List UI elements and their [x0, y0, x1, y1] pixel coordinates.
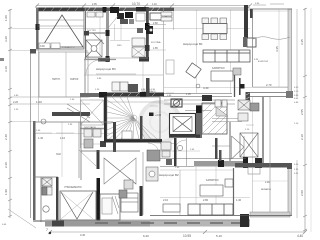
svg-text:1.85: 1.85: [153, 47, 158, 50]
top dimension line: [35, 4, 252, 8]
B1 right inner wall: [234, 68, 236, 97]
B2 bath dark bit: [166, 159, 172, 165]
stairwell top wall: [104, 93, 164, 97]
svg-text:3.20: 3.20: [4, 36, 8, 42]
svg-text:3.40: 3.40: [80, 233, 86, 237]
block left wall: [85, 8, 87, 60]
svg-text:ΧΩΛ: ΧΩΛ: [117, 45, 122, 47]
hall inner vline: [78, 122, 80, 178]
svg-text:3.10: 3.10: [4, 66, 8, 72]
hline below stairs: [81, 150, 140, 152]
svg-text:4.40: 4.40: [297, 234, 303, 238]
left narrow room boxes: [42, 178, 52, 195]
B1 bottom wall: [164, 94, 232, 97]
svg-text:0.90: 0.90: [40, 45, 45, 48]
B2 sofa: [188, 204, 233, 215]
corridor small box: [122, 131, 132, 139]
corridor dark segment: [202, 95, 212, 101]
thin divider kitchen-living: [163, 8, 165, 97]
B1 right hatch box: [233, 68, 241, 75]
bottom edge line y215: [150, 215, 292, 217]
right bath bottom wall band: [235, 163, 291, 168]
B1 plant: [196, 84, 200, 88]
top wall hatch gaps: [87, 8, 160, 12]
svg-text:2.40: 2.40: [4, 134, 8, 140]
top-left room dark block on left wall: [36, 24, 40, 30]
svg-text:Διαμέρισμα Β1: Διαμέρισμα Β1: [183, 42, 203, 46]
svg-text:ΕΞΩΣΤΗΣ: ΕΞΩΣΤΗΣ: [258, 61, 269, 63]
svg-text:1.00: 1.00: [4, 15, 8, 21]
top wall dark studs: [103, 7, 107, 13]
top wall hatched: [84, 8, 174, 12]
B1 top window wall: [174, 8, 250, 10]
laundry left wall: [80, 122, 82, 180]
B1 wall lower segment: [243, 37, 247, 47]
shaft hatch region: [203, 103, 227, 134]
svg-text:2.80: 2.80: [153, 22, 158, 25]
balcony left wall line: [252, 9, 254, 87]
laundry boxes: [84, 129, 101, 148]
svg-text:2.20: 2.20: [4, 162, 8, 168]
svg-text:5.10: 5.10: [216, 234, 222, 238]
kitchen wall dark blob 2: [145, 45, 150, 51]
svg-text:2.90: 2.90: [265, 181, 270, 184]
svg-text:7: 7: [46, 228, 48, 232]
block bottom wall: [84, 59, 116, 61]
long interior guide lines: [10, 10, 288, 218]
terrace band top edge: [45, 219, 250, 221]
svg-text:2.70: 2.70: [266, 83, 272, 87]
bottom wall lower-left: [33, 220, 130, 222]
left narrow room divider: [33, 176, 58, 178]
small fixtures above B2 bed: [119, 180, 133, 198]
B3 closet boxes: [112, 82, 128, 91]
B2 top wall gray band: [194, 161, 246, 167]
svg-text:ΧΩΡΟΣ: ΧΩΡΟΣ: [70, 78, 79, 81]
dining table: [203, 24, 227, 34]
ramp diagonal 2: [67, 108, 90, 122]
B2 small bed: [121, 193, 138, 212]
svg-text:ΚΑΘΙΣΤΙΚΟ: ΚΑΘΙΣΤΙΚΟ: [212, 67, 225, 70]
svg-text:2.10: 2.10: [163, 198, 169, 202]
small bath left of stairwell: [80, 93, 104, 97]
scattered tiny dim texts: [36, 59, 259, 169]
mid vertical wall: [106, 11, 109, 62]
left dimension line: [8, 9, 12, 218]
svg-text:ΗΜΙΥΠ.: ΗΜΙΥΠ.: [52, 78, 61, 81]
svg-text:0.30 1.20 0.30: 0.30 1.20 0.30: [141, 89, 156, 91]
B2 vertical dark stub: [219, 150, 222, 161]
stair landing line: [159, 97, 161, 139]
B3 left wall: [84, 60, 86, 97]
right mid wall: [262, 97, 264, 167]
terrace band left: [45, 221, 150, 227]
right dim texts: [300, 39, 304, 196]
svg-text:1.10: 1.10: [60, 136, 66, 140]
B1 right wall dark column: [244, 5, 248, 38]
bath fixtures right of butterfly: [146, 150, 160, 181]
mid wall dark blob 2: [106, 56, 110, 62]
kitchen vertical wall: [146, 7, 149, 60]
door diagonal bath: [93, 33, 104, 44]
B1 armchair rotated: [186, 63, 201, 78]
balcony dim 2.70: [253, 86, 288, 88]
bottom right gray sill: [250, 212, 290, 217]
right bath fixtures: [238, 100, 259, 121]
door diagonal room2: [108, 16, 118, 28]
top-left room outline: [38, 11, 84, 49]
kitchen wall dark blob 1: [145, 23, 150, 30]
door arc B3: [86, 60, 100, 74]
svg-text:1.40: 1.40: [152, 3, 157, 6]
wardrobe inner box: [102, 198, 112, 214]
wall connector right: [269, 97, 271, 215]
hall door diagonal: [79, 150, 96, 166]
semi-open room divider: [65, 52, 67, 97]
top wall hatch marks: [43, 8, 78, 12]
top-left room small label boxes: [39, 43, 50, 49]
svg-text:4.40: 4.40: [203, 86, 209, 90]
B2 entry area right of shaft: [215, 100, 227, 107]
balcony left wall upper: [250, 9, 253, 18]
svg-text:2.10: 2.10: [300, 134, 304, 140]
B2 left sideboard: [163, 204, 180, 212]
terrace band right: [150, 220, 250, 227]
dim line y97: [10, 96, 90, 98]
shower X box: [86, 40, 102, 57]
butterfly triangles: [104, 158, 136, 184]
junction dark box left: [30, 49, 36, 54]
svg-text:1.40: 1.40: [38, 136, 44, 140]
stair fan steps: [107, 97, 160, 139]
sink circle: [149, 28, 152, 31]
B1 coffee table: [211, 71, 233, 81]
semi-open room outline: [39, 52, 88, 97]
watermark circle logo: [140, 102, 180, 142]
block bottom wall dark segment: [98, 58, 110, 62]
svg-text:ΚΟΥΖΙΝΑ: ΚΟΥΖΙΝΑ: [151, 41, 161, 44]
B2 right wall: [233, 168, 235, 215]
left boundary second line: [38, 49, 40, 122]
right wall band at y92: [250, 93, 292, 97]
svg-text:2.80: 2.80: [203, 198, 209, 202]
corridor vertical dark line left: [174, 138, 177, 166]
wardrobe hatch: [112, 196, 119, 214]
small circle fixture: [41, 119, 46, 124]
terrace band left dark start: [52, 221, 64, 227]
shaft boundary: [202, 103, 227, 134]
svg-text:1.00: 1.00: [36, 100, 42, 104]
dining chairs bottom row: [202, 34, 227, 40]
corridor top lines: [164, 100, 235, 111]
bedroom bed zigzag: [60, 191, 96, 220]
ramp diagonal 1: [67, 104, 90, 118]
wc outline boxes: [136, 13, 145, 21]
dining chairs top row: [202, 18, 227, 24]
B2 top wall black blob 1: [218, 160, 224, 167]
svg-text:+3.00: +3.00: [155, 114, 162, 117]
bedroom right black wall: [97, 178, 101, 222]
svg-text:6.20: 6.20: [143, 234, 149, 238]
B1 sofa: [203, 50, 250, 62]
svg-text:ΠΛΥΣΤΑΡΙΟ: ΠΛΥΣΤΑΡΙΟ: [84, 126, 96, 129]
dim line y104: [10, 103, 90, 105]
bottom right dark block: [240, 214, 249, 227]
svg-text:1.40: 1.40: [236, 198, 242, 202]
left dim texts: [4, 15, 8, 195]
laundry right wall: [113, 122, 116, 152]
leader diagonal bottom-left: [8, 209, 36, 228]
svg-text:ΧΩΛ: ΧΩΛ: [56, 153, 61, 156]
corridor door arcs: [148, 140, 186, 154]
svg-text:3.35: 3.35: [300, 39, 304, 45]
top-left room top wall: [37, 8, 84, 12]
kitchen counter top: [150, 13, 166, 20]
svg-text:ΥΠΝΟΔΩΜΑΤΙΟ: ΥΠΝΟΔΩΜΑΤΙΟ: [64, 186, 82, 189]
right outer dimension line: [303, 8, 307, 232]
extra right texts: [294, 87, 299, 175]
bath1 small boxes: [87, 12, 103, 17]
B2 coffee table: [200, 185, 223, 196]
bottom dimension line: [48, 230, 307, 234]
wardrobe: [100, 194, 120, 220]
svg-text:2.95: 2.95: [92, 3, 97, 6]
machine room diagonal: [172, 100, 181, 107]
B2 top wall black blob 2: [243, 157, 248, 168]
svg-text:Διαμέρισμα Β2: Διαμέρισμα Β2: [159, 173, 179, 177]
dark vline below bath: [140, 186, 143, 216]
below elevator dark band: [169, 135, 200, 138]
hall small dim lines: [36, 132, 74, 134]
kitchen counter line: [148, 24, 166, 26]
svg-text:4.35: 4.35: [275, 46, 279, 52]
B2 bath fixtures above wall: [161, 142, 183, 157]
svg-text:2.55: 2.55: [300, 109, 304, 115]
svg-text:1.05: 1.05: [186, 93, 191, 96]
left narrow room circle: [43, 206, 49, 212]
appliance dark blob: [137, 28, 143, 33]
lower-left top line: [33, 121, 113, 123]
kitchen inner line bottom: [84, 57, 148, 59]
dark band left-middle: [52, 112, 90, 116]
corner room outline right: [248, 166, 260, 174]
svg-text:ΣΤΕΓΑΣΤΡΟ: ΣΤΕΓΑΣΤΡΟ: [62, 46, 75, 49]
svg-text:2.20: 2.20: [13, 100, 19, 104]
B2 top thin walls: [160, 159, 246, 167]
room2 thin lines: [110, 24, 130, 41]
svg-text:2.00: 2.00: [300, 190, 304, 196]
mid wall dark blob 1: [106, 30, 110, 36]
top-left room triangle: [42, 15, 83, 47]
elevator inner cab: [173, 117, 192, 132]
lower-left outer wall: [33, 121, 36, 220]
svg-text:10.95: 10.95: [183, 234, 191, 238]
right inner dim line: [296, 9, 298, 218]
left narrow room wall: [56, 177, 59, 222]
appliance boxes column: [132, 38, 145, 57]
top right tiny dim marks: [253, 4, 284, 5]
top-left room left wall: [36, 8, 39, 50]
svg-text:ΒΕΡΑΝΤΑ: ΒΕΡΑΝΤΑ: [261, 188, 271, 191]
balcony break curve: [253, 37, 290, 40]
bottom node dot: [49, 232, 51, 234]
machine room circle: [173, 100, 179, 106]
bath1 bottom wall: [84, 32, 106, 34]
B2 divider vlines: [179, 170, 181, 215]
elevator walls: [170, 114, 196, 135]
stairwell left wall: [104, 96, 107, 142]
bath1 bottom wall blob: [84, 31, 89, 36]
balcony top edge: [250, 8, 292, 10]
corridor vertical dark line right: [215, 138, 218, 159]
B1 right wall box: [247, 38, 256, 47]
svg-text:ΚΑΘΙΣΤΙΚΟ: ΚΑΘΙΣΤΙΚΟ: [206, 179, 219, 182]
top-left room horizontal lines: [38, 19, 84, 21]
right bath shower X: [240, 133, 258, 157]
stove black cluster: [146, 26, 153, 34]
stairwell bottom wall: [104, 139, 162, 143]
svg-text:Διαμέρισμα Β3: Διαμέρισμα Β3: [96, 67, 116, 71]
level marker: [149, 113, 154, 117]
shaft thick wall: [196, 105, 202, 138]
machine room box: [171, 99, 182, 107]
wc black cluster: [117, 13, 124, 19]
elevator X: [173, 117, 192, 132]
right balcony gray edge band lower: [288, 165, 292, 215]
terrace band right dashes: [95, 222, 242, 224]
right balcony gray edge band upper: [288, 9, 292, 97]
corridor lines: [84, 74, 163, 76]
B1 bottom wall dark parts: [239, 78, 241, 95]
svg-text:10.70: 10.70: [132, 2, 140, 6]
tick marks right wall band: [286, 91, 293, 98]
svg-text:1.90: 1.90: [4, 189, 8, 195]
left boundary line: [30, 49, 32, 218]
